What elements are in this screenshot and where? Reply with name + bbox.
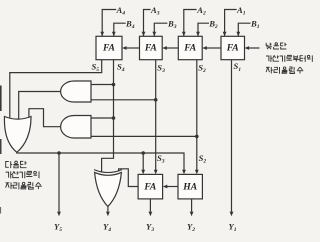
svg-text:A2: A2 [196, 5, 206, 17]
svg-text:A1: A1 [236, 5, 246, 17]
svg-text:S4: S4 [117, 61, 125, 73]
svg-text:Y2: Y2 [187, 222, 195, 234]
svg-text:FA: FA [183, 43, 196, 54]
svg-text:S3: S3 [157, 153, 165, 165]
svg-text:S2: S2 [198, 63, 206, 75]
svg-text:A4: A4 [116, 5, 126, 17]
svg-text:HA: HA [182, 181, 197, 192]
svg-text:FA: FA [102, 43, 115, 54]
svg-text:S1: S1 [234, 61, 242, 73]
svg-text:B2: B2 [208, 19, 218, 31]
svg-text:B4: B4 [125, 19, 135, 31]
svg-text:Y3: Y3 [146, 222, 154, 234]
svg-text:S5: S5 [92, 61, 100, 73]
svg-text:B1: B1 [250, 19, 260, 31]
svg-text:A3: A3 [150, 5, 160, 17]
svg-text:Y1: Y1 [229, 222, 237, 234]
svg-text:B3: B3 [167, 19, 177, 31]
svg-text:S3: S3 [157, 63, 165, 75]
svg-text:Y4: Y4 [103, 222, 111, 234]
svg-text:FA: FA [226, 43, 239, 54]
svg-text:FA: FA [143, 181, 156, 192]
svg-text:FA: FA [144, 43, 157, 54]
svg-text:S2: S2 [199, 153, 207, 165]
svg-text:Y5: Y5 [54, 222, 62, 234]
